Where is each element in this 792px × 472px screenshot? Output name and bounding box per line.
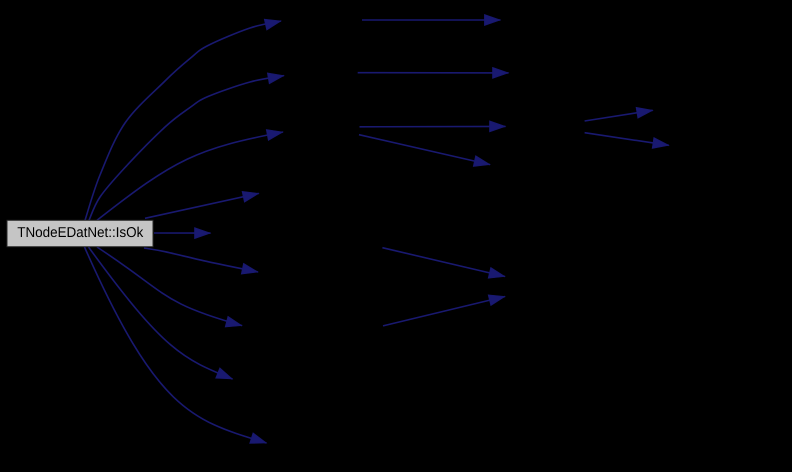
- edge IsOk to node2: [89, 73, 284, 220]
- edge node4 to node14: [382, 248, 505, 279]
- edge IsOk to node7: [97, 247, 242, 327]
- edge IsOk to node6: [144, 248, 258, 274]
- edge IsOk to node4: [145, 191, 259, 218]
- edge IsOk to node3: [97, 130, 283, 221]
- edge node1 to node10: [362, 14, 500, 25]
- edge node3 to node13: [359, 135, 490, 167]
- edge IsOk to node1: [85, 19, 281, 220]
- edge node3 to node12: [360, 121, 506, 132]
- edge node2 to node11: [358, 67, 509, 78]
- edge node12 to node16: [585, 133, 669, 149]
- edge node12 to node15: [585, 107, 653, 121]
- node TNodeEDatNet::IsOk: [7, 220, 153, 246]
- edge IsOk to node9: [85, 247, 267, 443]
- edge IsOk to node8: [89, 247, 233, 379]
- edge node7 to node14: [383, 295, 505, 326]
- edge IsOk to node5: [154, 228, 211, 239]
